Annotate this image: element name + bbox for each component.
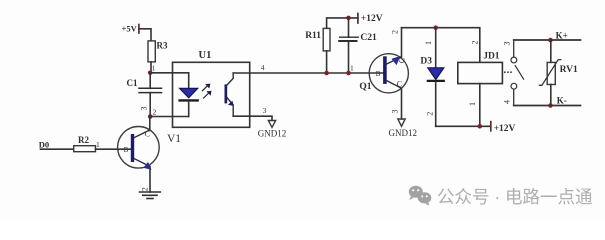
wire Q1 bottom to ground [401, 89, 403, 120]
wire LED cathode to node 2 [150, 116, 189, 118]
node junction (D3 top) [433, 25, 438, 30]
light arrows [202, 84, 211, 98]
wire +12V rail to R11/C21 [327, 18, 358, 29]
pin 3 wire to ground [233, 116, 272, 120]
node junction (relay bottom) [478, 124, 483, 129]
top rail wire (Q1 to relay) [402, 28, 480, 63]
varistor RV1 [539, 40, 578, 106]
ground GND12 (U1 pin3) [258, 121, 287, 139]
wire node1 to LED anode [150, 73, 189, 89]
K+ rail wire [514, 39, 581, 41]
capacitor C1 [127, 73, 162, 117]
transistor Q1 [369, 54, 408, 93]
wire V1 emitter down to ground [149, 167, 151, 193]
power +12V terminal (top) [358, 13, 383, 23]
node junction (RV1 top) [548, 38, 553, 43]
wire relay bottom pin [479, 84, 481, 127]
wire Q1 top to rail [401, 28, 403, 57]
K- rail wire [514, 105, 581, 107]
opto-coupler U1 box [173, 50, 250, 127]
node junction (RV1 bottom) [548, 103, 553, 108]
wire V1 collector up to node 2 [149, 117, 151, 130]
node junction (C21 top) [346, 16, 351, 21]
relay contact [511, 40, 524, 106]
wire R11 bottom to node [326, 51, 328, 73]
earth ground (V1 emitter) [140, 192, 161, 199]
pin 4 wire (U1 out to Q1 base) [233, 72, 384, 74]
resistor R3 [148, 40, 168, 62]
capacitor C21 [339, 18, 377, 73]
resistor R2 [74, 135, 96, 152]
bottom rail wire (D3 to +12V) [436, 125, 491, 127]
wire R2 to V1 base [96, 148, 132, 150]
resistor R11 [305, 28, 330, 51]
power +5V terminal [122, 24, 139, 34]
wire D0 to R2 [41, 148, 74, 150]
relay linkage dots [504, 71, 512, 73]
node junction (C21 bottom) [346, 71, 351, 76]
transistor V1 [118, 127, 160, 170]
node junction (C1/LED cathode/V1 collector) [148, 114, 153, 119]
wire R3 bottom to node 1 [150, 62, 152, 73]
photo-transistor of U1 [225, 73, 234, 116]
node junction (R11 bottom) [324, 71, 329, 76]
watermark text [437, 184, 605, 209]
LED of U1 (blue) [180, 88, 198, 116]
diode D3 (blue) [420, 28, 443, 127]
relay JD1 coil [458, 52, 503, 84]
power +12V terminal (bottom) [491, 122, 516, 135]
wire +5V to R3 top [139, 29, 151, 41]
node junction (R3/C1/LED anode) [148, 71, 153, 76]
ground GND12 (Q1) [389, 119, 418, 138]
